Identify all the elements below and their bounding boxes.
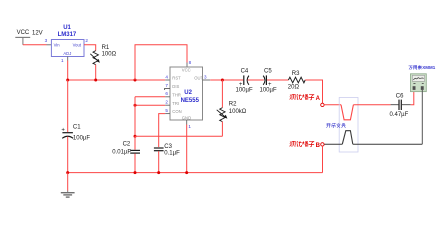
svg-text:100µF: 100µF: [236, 87, 253, 93]
ground: [61, 191, 75, 198]
svg-text:TRI: TRI: [172, 101, 179, 106]
wire A to kelvin clip: [324, 104, 341, 106]
svg-text:100µF: 100µF: [73, 135, 90, 141]
pin stub DIS unconnected: [165, 88, 170, 90]
wire B to clip: [353, 143, 423, 145]
svg-text:4: 4: [165, 74, 168, 79]
svg-text:THR: THR: [172, 92, 181, 97]
capacitor C4 100uF electrolytic: [236, 69, 253, 94]
svg-text:5: 5: [165, 108, 168, 113]
wire rail ADJ/RST: [68, 79, 170, 81]
svg-text:VCC: VCC: [17, 30, 30, 36]
svg-text:CON: CON: [172, 109, 181, 114]
node TRI junction: [134, 104, 137, 107]
svg-text:100kΩ: 100kΩ: [229, 109, 247, 115]
node C2 bottom rail junction: [134, 171, 137, 174]
svg-text:A: A: [316, 96, 321, 102]
wire clip B to terminal B: [324, 143, 342, 145]
wire U1 Vout to R1: [84, 45, 96, 51]
svg-text:GND: GND: [182, 115, 191, 120]
wire R2 bottom: [221, 122, 223, 137]
svg-text:C3: C3: [164, 144, 172, 150]
node terminal B: [321, 143, 324, 146]
node GND rail junction: [185, 171, 188, 174]
label test terminal B: [290, 141, 314, 147]
wire terminal B down to bottom rail: [322, 146, 324, 173]
wire 555 GND pin 1: [186, 120, 188, 173]
wire OUT down to R2: [221, 80, 223, 108]
capacitor C1 100uF electrolytic: [61, 125, 90, 142]
wire R1 bottom to rail: [95, 65, 97, 80]
svg-text:2: 2: [165, 100, 168, 105]
svg-text:C4: C4: [241, 69, 249, 75]
svg-text:DIS: DIS: [172, 84, 179, 89]
timer IC U2 NE555: [170, 67, 204, 120]
svg-text:OUT: OUT: [194, 76, 203, 81]
svg-text:LM317: LM317: [58, 32, 77, 38]
node C2 junction: [134, 135, 137, 138]
svg-text:C6: C6: [396, 94, 404, 100]
svg-text:C2: C2: [123, 141, 131, 147]
wire TRI: [135, 104, 170, 106]
capacitor C5 100uF electrolytic: [260, 69, 277, 94]
capacitor C2 0.01uF: [112, 136, 140, 172]
wire C2 node to R2 bottom: [135, 135, 222, 137]
wire C1 top: [67, 80, 69, 132]
svg-text:XMM1: XMM1: [422, 65, 435, 70]
kelvin clip B (bump): [342, 131, 353, 145]
svg-text:12V: 12V: [32, 30, 43, 36]
capacitor C6 0.47uF: [390, 94, 409, 118]
resistor R1 100 ohm variable: [90, 45, 116, 65]
selection box around clips: [339, 98, 358, 153]
wire THR: [135, 96, 170, 98]
svg-text:R2: R2: [229, 101, 237, 107]
svg-text:VCC: VCC: [182, 68, 191, 73]
svg-text:2: 2: [85, 38, 88, 43]
svg-text:100µF: 100µF: [260, 87, 277, 93]
voltage regulator U1 LM317: [51, 25, 84, 56]
svg-text:0.1µF: 0.1µF: [164, 150, 180, 156]
svg-text:R3: R3: [292, 71, 300, 77]
wire CON: [159, 114, 170, 147]
wire C5 to R3: [267, 79, 289, 81]
wire clip A to C6: [353, 104, 390, 106]
svg-text:R1: R1: [102, 45, 110, 51]
svg-text:B: B: [316, 143, 321, 149]
wire 555 OUT pin 3: [203, 79, 244, 81]
svg-text:RST: RST: [172, 76, 181, 81]
wire C6 to multimeter plus: [402, 91, 414, 105]
svg-text:100Ω: 100Ω: [102, 51, 117, 57]
bottom rail (ground net): [68, 172, 323, 174]
svg-text:C5: C5: [264, 69, 272, 75]
svg-text:1: 1: [188, 124, 191, 129]
svg-text:C1: C1: [73, 125, 81, 131]
svg-text:ADJ: ADJ: [63, 51, 71, 56]
svg-text:3: 3: [45, 38, 48, 43]
node R1 bottom junction: [94, 79, 97, 82]
svg-text:20Ω: 20Ω: [288, 85, 300, 91]
resistor R3 20 ohm: [288, 71, 305, 91]
svg-text:3: 3: [204, 74, 207, 79]
wire R3 to terminal A: [305, 80, 322, 103]
node C3 bottom rail junction: [157, 171, 160, 174]
kelvin clip A (dip): [341, 105, 353, 120]
wire U1 ADJ down: [67, 57, 69, 81]
svg-text:8: 8: [189, 60, 192, 65]
svg-text:0.47µF: 0.47µF: [390, 112, 409, 118]
svg-text:0.01µF: 0.01µF: [112, 149, 131, 155]
svg-text:U2: U2: [184, 90, 192, 96]
wire to ground symbol: [67, 173, 69, 191]
svg-text:7: 7: [165, 83, 168, 88]
resistor R2 100k variable: [217, 101, 247, 121]
svg-text:U1: U1: [63, 25, 71, 31]
wire C1 bottom to bottom rail: [67, 137, 69, 173]
wire multimeter minus down: [421, 90, 423, 144]
capacitor C3 0.1uF: [154, 144, 180, 173]
node ground junction: [66, 171, 69, 174]
node VCC riser junction: [134, 79, 137, 82]
multimeter XMM1: [409, 65, 436, 91]
svg-text:Vout: Vout: [73, 42, 82, 47]
node ADJ/C1 junction: [66, 79, 69, 82]
svg-text:Vin: Vin: [54, 42, 61, 47]
node terminal A: [321, 103, 324, 106]
wire THR/TRI down to C2 node: [134, 97, 136, 137]
wire C4 to C5: [248, 79, 264, 81]
kelvin clip label: [326, 123, 345, 128]
svg-text:1: 1: [61, 58, 64, 63]
wire riser to 555 VCC pin 8: [135, 45, 187, 80]
label test terminal A: [290, 94, 314, 100]
node OUT junction: [221, 79, 224, 82]
VCC power symbol: [15, 30, 42, 45]
wire VCC to U1 Vin: [23, 44, 52, 46]
svg-text:NE555: NE555: [181, 98, 200, 104]
svg-text:+: +: [61, 128, 65, 134]
svg-text:6: 6: [165, 91, 168, 96]
